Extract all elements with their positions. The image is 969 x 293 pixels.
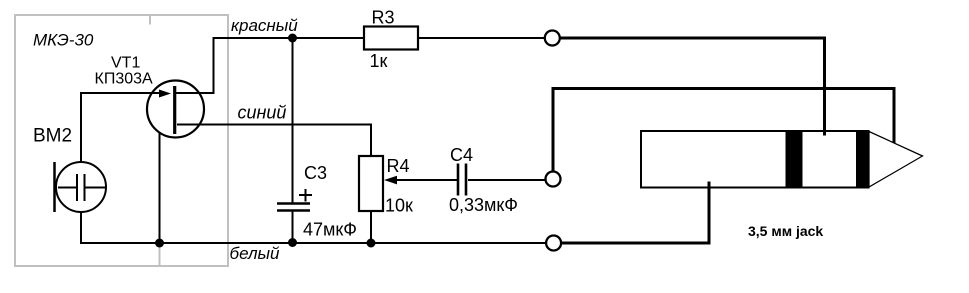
svg-text:МКЭ-30: МКЭ-30: [33, 31, 94, 50]
svg-text:синий: синий: [238, 103, 287, 123]
svg-text:VT1: VT1: [111, 55, 140, 72]
svg-text:3,5 мм jack: 3,5 мм jack: [748, 223, 823, 239]
svg-text:0,33мкФ: 0,33мкФ: [449, 195, 518, 215]
svg-text:КП303А: КП303А: [95, 71, 154, 88]
svg-text:R3: R3: [372, 8, 395, 28]
svg-text:1к: 1к: [370, 51, 388, 71]
svg-text:красный: красный: [231, 16, 298, 35]
svg-text:10к: 10к: [385, 196, 413, 216]
svg-text:ВМ2: ВМ2: [33, 126, 72, 147]
svg-text:C4: C4: [450, 145, 473, 165]
svg-text:C3: C3: [304, 163, 327, 183]
svg-text:R4: R4: [387, 156, 410, 176]
svg-text:47мкФ: 47мкФ: [303, 220, 357, 240]
svg-text:белый: белый: [230, 244, 281, 263]
